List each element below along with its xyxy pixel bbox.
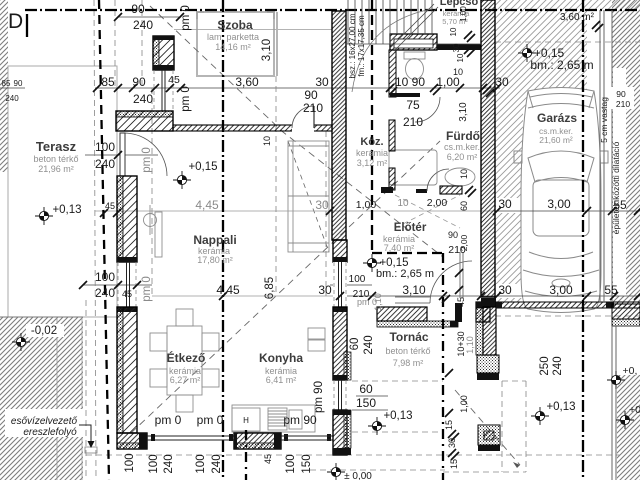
svg-text:bsz.: 16x27,00 cm: bsz.: 16x27,00 cm — [348, 13, 357, 78]
svg-text:30: 30 — [315, 198, 329, 212]
svg-text:6,41 m²: 6,41 m² — [266, 375, 297, 385]
svg-text:6,85: 6,85 — [264, 277, 276, 299]
svg-text:Étkező: Étkező — [167, 350, 206, 365]
svg-text:90: 90 — [304, 88, 318, 102]
svg-text:100: 100 — [349, 274, 366, 285]
svg-text:10: 10 — [449, 27, 458, 36]
svg-text:beton térkő: beton térkő — [385, 346, 430, 356]
svg-text:pm 0: pm 0 — [197, 413, 224, 427]
svg-text:15: 15 — [449, 459, 459, 469]
svg-text:240: 240 — [95, 157, 115, 171]
svg-text:100: 100 — [95, 270, 115, 284]
svg-text:240: 240 — [363, 335, 375, 354]
svg-text:10: 10 — [459, 169, 469, 179]
svg-text:4,45: 4,45 — [195, 198, 219, 212]
svg-text:240: 240 — [133, 18, 153, 32]
svg-text:45: 45 — [122, 289, 132, 299]
svg-text:épületek közötti dilatáció: épületek közötti dilatáció — [611, 141, 621, 234]
svg-text:60: 60 — [359, 382, 373, 396]
svg-text:Tornác: Tornác — [389, 330, 428, 344]
svg-text:250: 250 — [539, 356, 551, 375]
svg-text:45: 45 — [456, 297, 466, 307]
svg-text:7,98 m²: 7,98 m² — [393, 358, 424, 368]
svg-text:10: 10 — [456, 53, 465, 62]
svg-text:210: 210 — [303, 101, 323, 115]
svg-text:60: 60 — [459, 201, 469, 211]
svg-text:pm 0: pm 0 — [155, 413, 182, 427]
svg-text:D: D — [8, 10, 23, 33]
svg-text:pm 0: pm 0 — [180, 86, 192, 112]
svg-text:21,96 m²: 21,96 m² — [38, 164, 74, 174]
svg-text:90: 90 — [616, 89, 626, 99]
svg-text:240: 240 — [211, 454, 223, 473]
svg-text:30: 30 — [315, 75, 329, 89]
svg-text:10 90: 10 90 — [395, 75, 425, 89]
svg-text:Konyha: Konyha — [259, 351, 303, 365]
svg-text:1,10: 1,10 — [373, 293, 383, 311]
svg-text:+0,13: +0,13 — [546, 401, 575, 413]
svg-text:15: 15 — [444, 420, 454, 430]
svg-text:60: 60 — [349, 338, 361, 351]
svg-text:pm 0: pm 0 — [141, 276, 153, 302]
svg-text:3,60 m²: 3,60 m² — [560, 12, 595, 23]
svg-text:Nappali: Nappali — [193, 233, 236, 247]
svg-text:5 cm vastag: 5 cm vastag — [599, 97, 609, 143]
svg-text:30: 30 — [318, 283, 332, 297]
svg-text:+0,: +0, — [623, 365, 638, 377]
svg-text:210: 210 — [616, 99, 630, 109]
svg-text:3,60: 3,60 — [235, 75, 259, 89]
svg-text:± 0,00: ± 0,00 — [344, 471, 372, 480]
svg-text:+0,15: +0,15 — [188, 161, 217, 173]
svg-text:90: 90 — [131, 2, 145, 16]
svg-text:beton térkő: beton térkő — [33, 154, 78, 164]
svg-text:14,16 m²: 14,16 m² — [215, 42, 251, 52]
svg-text:100: 100 — [148, 454, 160, 473]
svg-text:1,00: 1,00 — [459, 395, 469, 413]
svg-text:pm 0: pm 0 — [180, 5, 192, 31]
svg-text:kerámia: kerámia — [356, 148, 388, 158]
svg-text:240: 240 — [552, 356, 564, 375]
svg-text:Terasz: Terasz — [36, 139, 77, 154]
svg-text:240: 240 — [133, 92, 153, 106]
svg-text:75: 75 — [406, 98, 420, 112]
svg-text:Szoba: Szoba — [217, 18, 253, 32]
svg-text:30: 30 — [498, 283, 512, 297]
svg-text:30: 30 — [452, 43, 461, 52]
svg-text:150: 150 — [356, 396, 376, 410]
svg-text:10: 10 — [397, 198, 409, 209]
svg-text:3,10: 3,10 — [261, 39, 273, 61]
svg-text:100: 100 — [95, 140, 115, 154]
svg-text:6,20 m²: 6,20 m² — [447, 152, 478, 162]
svg-text:17,80 m²: 17,80 m² — [197, 255, 233, 265]
svg-text:3,00: 3,00 — [547, 197, 571, 211]
svg-text:4,45: 4,45 — [216, 283, 240, 297]
svg-text:Köz.: Köz. — [360, 136, 383, 148]
svg-text:pm 90: pm 90 — [313, 381, 325, 413]
svg-text:6,27 m²: 6,27 m² — [170, 375, 201, 385]
svg-text:Garázs: Garázs — [537, 111, 577, 125]
svg-text:1,00: 1,00 — [356, 199, 377, 211]
svg-text:3,12 m²: 3,12 m² — [357, 158, 388, 168]
svg-text:7,40 m²: 7,40 m² — [384, 243, 415, 253]
svg-text:-0,02: -0,02 — [31, 325, 57, 337]
svg-text:90: 90 — [448, 230, 458, 240]
svg-text:Előtér: Előtér — [394, 222, 427, 234]
svg-text:240: 240 — [95, 286, 115, 300]
svg-text:240: 240 — [163, 454, 175, 473]
svg-text:85: 85 — [2, 79, 11, 88]
svg-text:100: 100 — [285, 454, 297, 473]
svg-text:30: 30 — [498, 197, 512, 211]
svg-text:Fürdő: Fürdő — [446, 129, 480, 143]
svg-text:fm.: 17x17,35 cm: fm.: 17x17,35 cm — [357, 15, 366, 77]
svg-text:10: 10 — [262, 136, 272, 146]
svg-text:+0,13: +0,13 — [383, 410, 412, 422]
svg-text:pm 0: pm 0 — [141, 147, 153, 173]
svg-text:1,00: 1,00 — [459, 6, 468, 22]
svg-text:ereszlefolyó: ereszlefolyó — [23, 427, 77, 438]
svg-text:90: 90 — [14, 79, 23, 88]
svg-text:lam. parketta: lam. parketta — [207, 32, 259, 42]
svg-text:3,00: 3,00 — [549, 283, 573, 297]
svg-text:150: 150 — [301, 454, 313, 473]
svg-text:2,00: 2,00 — [459, 234, 469, 251]
svg-text:100: 100 — [124, 453, 136, 472]
svg-text:1,10: 1,10 — [465, 336, 475, 354]
svg-text:21,60 m²: 21,60 m² — [539, 135, 573, 145]
svg-text:bm.: 2,65 m: bm.: 2,65 m — [376, 268, 434, 280]
svg-text:2,00: 2,00 — [427, 197, 448, 209]
svg-text:10: 10 — [453, 67, 463, 77]
svg-text:H: H — [243, 416, 249, 425]
svg-text:+0,13: +0,13 — [52, 204, 81, 216]
svg-text:85: 85 — [101, 75, 115, 89]
svg-text:bm.: 2,65 m: bm.: 2,65 m — [530, 58, 593, 72]
svg-text:1,00: 1,00 — [436, 75, 460, 89]
svg-text:45: 45 — [263, 454, 273, 464]
svg-text:pm 90: pm 90 — [283, 413, 317, 427]
svg-text:3,10: 3,10 — [458, 102, 469, 122]
svg-text:240: 240 — [5, 94, 19, 103]
svg-text:3,10: 3,10 — [402, 283, 426, 297]
svg-text:cs.m.ker.: cs.m.ker. — [444, 142, 480, 152]
svg-text:210: 210 — [403, 115, 423, 129]
svg-text:100: 100 — [195, 454, 207, 473]
svg-text:esővízelvezető: esővízelvezető — [11, 416, 78, 427]
svg-text:+0: +0 — [629, 404, 640, 416]
